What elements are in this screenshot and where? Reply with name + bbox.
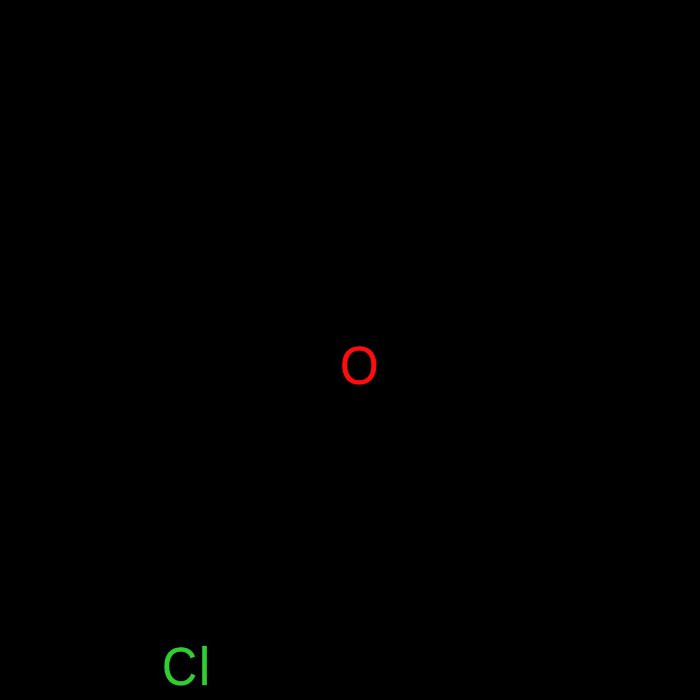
atom label Cl (chlorine) [162,640,212,694]
atom label O (ether oxygen) [340,339,379,393]
